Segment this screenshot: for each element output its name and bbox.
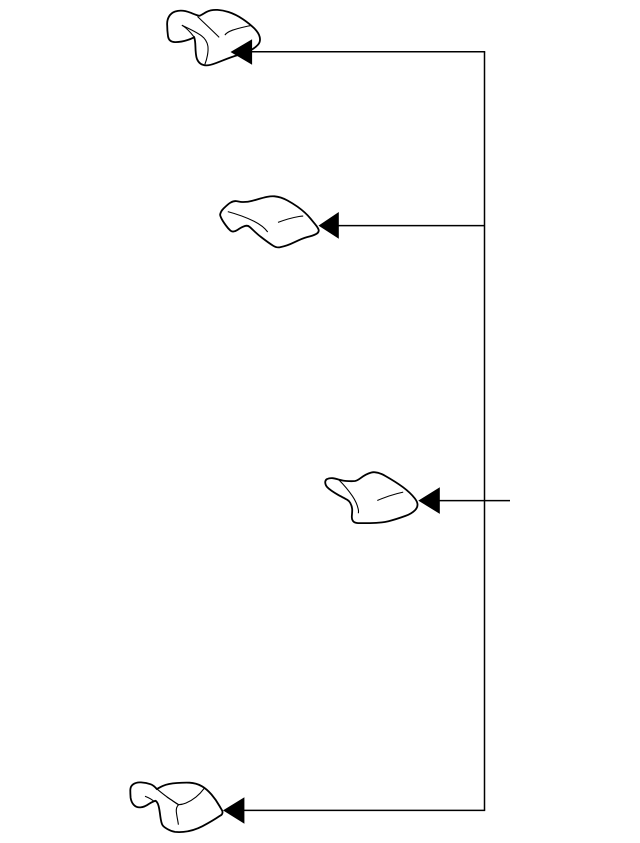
arrowhead 2 (319, 212, 339, 239)
part 3 short crease (377, 492, 403, 500)
part 1 seam diagonal (198, 17, 220, 38)
part 4 outer cover (bottom) (130, 782, 222, 832)
part 4 top crease sweep (176, 788, 204, 824)
part 1 fold upper line and neck crease (182, 25, 208, 64)
leader line 2 (337, 225, 485, 227)
leader line 1 (250, 51, 485, 53)
part 1 outer cover (top) (167, 10, 260, 66)
arrowhead 3 (418, 487, 440, 514)
part 2 long crease (228, 212, 268, 232)
part 2 short crease (278, 216, 303, 222)
part 4 lobe crease (145, 796, 154, 801)
part 3 inner cover (third) (325, 472, 417, 523)
part 3 ear crease (339, 480, 358, 513)
part 1 fold lower line (182, 25, 194, 37)
arrowhead 1 (231, 39, 253, 64)
part 1 right crease (225, 25, 252, 35)
part 4 fold wedge upper (157, 789, 178, 805)
trunk line (484, 52, 486, 811)
leader line 4 (243, 809, 485, 811)
part 2 cushion cover (second) (220, 196, 319, 247)
arrowhead 4 (223, 797, 244, 823)
leader line 3 (438, 500, 510, 502)
part 4 fold wedge lower (167, 797, 179, 805)
